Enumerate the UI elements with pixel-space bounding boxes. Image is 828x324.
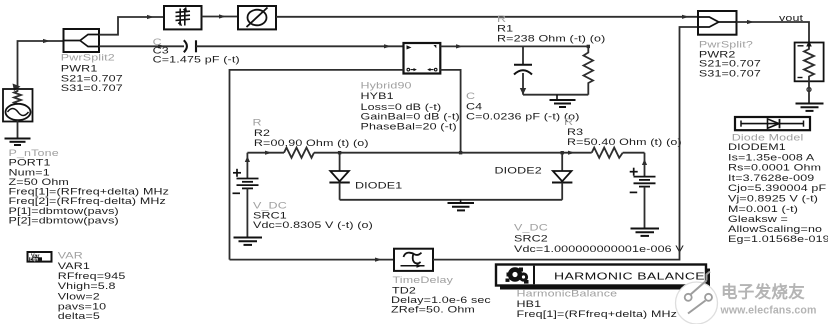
svg-text:M=0.001 (-t): M=0.001 (-t): [728, 205, 798, 215]
harmonic balance controller box: [496, 265, 710, 290]
label V_DC SRC2: [514, 223, 685, 254]
svg-text:R3: R3: [567, 128, 583, 138]
svg-text:ZRef=50. Ohm: ZRef=50. Ohm: [391, 305, 475, 315]
svg-text:Vhigh=5.8: Vhigh=5.8: [58, 282, 116, 292]
port P_nTone PORT1 source symbol: [3, 89, 33, 138]
svg-text:VAR: VAR: [58, 251, 83, 261]
svg-text:S31=0.707: S31=0.707: [699, 69, 761, 79]
svg-text:DIODE1: DIODE1: [355, 181, 402, 191]
label Diode Model DIODEM1: [728, 133, 828, 245]
label PwrSplit2 PWR2: [699, 40, 761, 79]
wire loop bottom to TD2: [230, 258, 395, 262]
svg-text:Delay=1.0e-6 sec: Delay=1.0e-6 sec: [391, 296, 491, 306]
svg-text:SRC1: SRC1: [253, 211, 287, 221]
diode DIODE1: [329, 153, 349, 200]
svg-text:R: R: [497, 14, 506, 24]
svg-text:Diode Model: Diode Model: [732, 133, 804, 143]
wire hybrid port4 down to mixer rail: [440, 70, 460, 153]
svg-text:Eqn: Eqn: [30, 257, 39, 262]
VAR equation icon: [28, 252, 52, 262]
watermark logo circle: [676, 272, 718, 324]
label R2: [253, 118, 369, 149]
watermark text: [720, 282, 817, 317]
svg-text:Vlow=2: Vlow=2: [58, 292, 100, 302]
svg-text:Freq[2]=(RFfreq-delta) MHz: Freq[2]=(RFfreq-delta) MHz: [9, 197, 166, 207]
label TimeDelay TD2: [391, 276, 491, 315]
svg-text:Loss=0 dB (-t): Loss=0 dB (-t): [361, 103, 442, 113]
node vout: [779, 14, 803, 24]
svg-text:www.elecfans.com: www.elecfans.com: [720, 305, 817, 317]
svg-text:Cjo=5.390004 pF: Cjo=5.390004 pF: [728, 184, 827, 194]
svg-text:vout: vout: [779, 14, 803, 24]
label Hybrid90 HYB1: [361, 81, 460, 132]
ground R1 branch: [550, 95, 576, 107]
svg-text:Vdc=0.8305 V (-t) (o): Vdc=0.8305 V (-t) (o): [253, 221, 373, 231]
resistor R3: [592, 148, 623, 158]
label P_nTone PORT1: [9, 149, 170, 226]
wire source riser to splitter input: [13, 39, 64, 91]
wire splitter bottom output to C3: [99, 44, 184, 48]
svg-text:TD2: TD2: [392, 286, 416, 296]
wire splitter top output to attenuator: [99, 15, 164, 35]
svg-text:HARMONIC BALANCE: HARMONIC BALANCE: [554, 270, 705, 281]
svg-text:Eg=1.01568e-019: Eg=1.01568e-019: [728, 235, 828, 245]
svg-text:DIODE2: DIODE2: [495, 166, 542, 176]
svg-text:HYB1: HYB1: [361, 92, 394, 102]
svg-text:Rs=0.0001 Ohm: Rs=0.0001 Ohm: [728, 163, 821, 173]
wire hybrid port3 left to loop corner: [230, 70, 404, 260]
dc source SRC2: [630, 153, 656, 228]
svg-text:P_nTone: P_nTone: [9, 149, 59, 159]
svg-text:Z=50 Ohm: Z=50 Ohm: [9, 178, 69, 188]
dc source SRC1: [233, 153, 259, 237]
ground SRC2: [631, 229, 660, 236]
svg-text:R=00.90 Ohm (t) (o): R=00.90 Ohm (t) (o): [254, 139, 369, 149]
svg-text:S21=0.707: S21=0.707: [699, 59, 761, 69]
svg-text:电子发烧友: 电子发烧友: [721, 282, 805, 302]
hybrid coupler HYB1: [404, 43, 441, 74]
svg-text:TimeDelay: TimeDelay: [393, 276, 454, 286]
label HarmonicBalance HB1: [517, 289, 678, 319]
wire TD2 to PWR2 lower input: [433, 27, 698, 260]
wire load to ground: [807, 81, 811, 103]
svg-text:R2: R2: [254, 129, 270, 139]
wire hybrid port2 to R1 branch: [440, 44, 590, 48]
wire C3 to hybrid port1: [196, 44, 404, 48]
svg-text:RFfreq=945: RFfreq=945: [58, 272, 126, 282]
svg-text:V_DC: V_DC: [514, 223, 548, 233]
svg-text:PWR2: PWR2: [699, 50, 736, 60]
label DIODE2: [495, 166, 542, 176]
svg-text:GainBal=0 dB (-t): GainBal=0 dB (-t): [361, 112, 460, 122]
svg-text:pavs=10: pavs=10: [58, 302, 107, 312]
svg-text:R: R: [253, 118, 262, 128]
svg-text:V_DC: V_DC: [253, 201, 287, 211]
attenuator box: [164, 6, 202, 29]
label C3: [153, 38, 240, 65]
svg-text:AllowScaling=no: AllowScaling=no: [728, 225, 822, 235]
ground load: [796, 104, 824, 111]
svg-text:R1: R1: [497, 24, 513, 34]
label VAR VAR1: [58, 251, 126, 321]
mixer rail SRC1 to SRC2: [247, 151, 644, 155]
svg-text:Freq[1]=(RFfreq+delta) MHz: Freq[1]=(RFfreq+delta) MHz: [9, 187, 170, 197]
label R1: [497, 14, 605, 44]
svg-text:Gleaksw =: Gleaksw =: [728, 215, 788, 225]
svg-text:S21=0.707: S21=0.707: [61, 74, 123, 84]
svg-text:PWR1: PWR1: [61, 64, 98, 74]
time delay TD2: [394, 249, 433, 271]
ground diode rail: [448, 200, 475, 211]
svg-text:R=50.40 Ohm (t) (o): R=50.40 Ohm (t) (o): [567, 138, 682, 148]
svg-text:P[1]=dbmtow(pavs): P[1]=dbmtow(pavs): [9, 207, 119, 217]
svg-text:C: C: [466, 92, 475, 102]
label DIODE1: [355, 181, 402, 191]
wire R1 branch bottom: [523, 94, 588, 96]
svg-text:P[2]=dbmtow(pavs): P[2]=dbmtow(pavs): [9, 216, 119, 226]
ground under source: [5, 139, 31, 146]
power splitter PWR2: [698, 11, 737, 35]
wire diode bottom rail: [340, 199, 563, 201]
svg-text:Hybrid90: Hybrid90: [361, 81, 412, 91]
svg-text:C=1.475 pF (-t): C=1.475 pF (-t): [153, 55, 240, 65]
svg-text:PORT1: PORT1: [9, 158, 51, 168]
svg-text:Num=1: Num=1: [9, 168, 50, 178]
capacitor in R1 branch: [514, 46, 532, 94]
wire PWR2 output to vout and load: [737, 20, 810, 43]
resistor in R1 branch: [584, 46, 594, 94]
svg-text:S31=0.707: S31=0.707: [61, 84, 123, 94]
svg-text:R=238 Ohm (-t) (o): R=238 Ohm (-t) (o): [497, 34, 605, 44]
wire attenuator to phase shifter: [202, 14, 239, 18]
svg-text:PwrSplit2: PwrSplit2: [61, 53, 115, 63]
phase shifter box: [238, 6, 276, 29]
ground SRC1: [234, 238, 263, 245]
svg-text:R: R: [564, 118, 573, 128]
svg-text:VAR1: VAR1: [58, 262, 90, 272]
svg-text:PwrSplit?: PwrSplit?: [699, 40, 753, 50]
svg-text:HB1: HB1: [517, 300, 542, 310]
svg-text:Vdc=1.000000000001e-006 V: Vdc=1.000000000001e-006 V: [514, 244, 685, 254]
diode model DIODEM1 icon: [735, 117, 810, 130]
label PwrSplit2 PWR1: [61, 53, 123, 93]
resistor R2: [284, 148, 314, 158]
svg-text:C4: C4: [466, 102, 482, 112]
diode DIODE2: [552, 153, 572, 200]
svg-text:Is=1.35e-008 A: Is=1.35e-008 A: [728, 153, 815, 163]
label V_DC SRC1: [253, 201, 373, 230]
svg-text:C=0.0236 pF (-t) (o): C=0.0236 pF (-t) (o): [466, 112, 580, 122]
power splitter PWR1: [64, 29, 100, 52]
svg-text:It=3.7628e-009: It=3.7628e-009: [728, 174, 814, 184]
label C4: [466, 92, 580, 122]
svg-text:PhaseBal=20 (-t): PhaseBal=20 (-t): [361, 122, 457, 132]
svg-text:DIODEM1: DIODEM1: [728, 143, 786, 153]
capacitor C3: [184, 40, 196, 52]
label R3: [564, 118, 682, 148]
svg-text:HarmonicBalance: HarmonicBalance: [517, 289, 618, 299]
load resistor box: [795, 41, 824, 82]
svg-text:Vj=0.8925 V (-t): Vj=0.8925 V (-t): [728, 194, 818, 204]
wire phase shifter to PWR2 top input: [276, 15, 698, 19]
svg-text:delta=5: delta=5: [58, 312, 100, 322]
svg-text:SRC2: SRC2: [514, 234, 548, 244]
svg-text:Freq[1]=(RFfreq+delta) MHz: Freq[1]=(RFfreq+delta) MHz: [517, 310, 678, 320]
